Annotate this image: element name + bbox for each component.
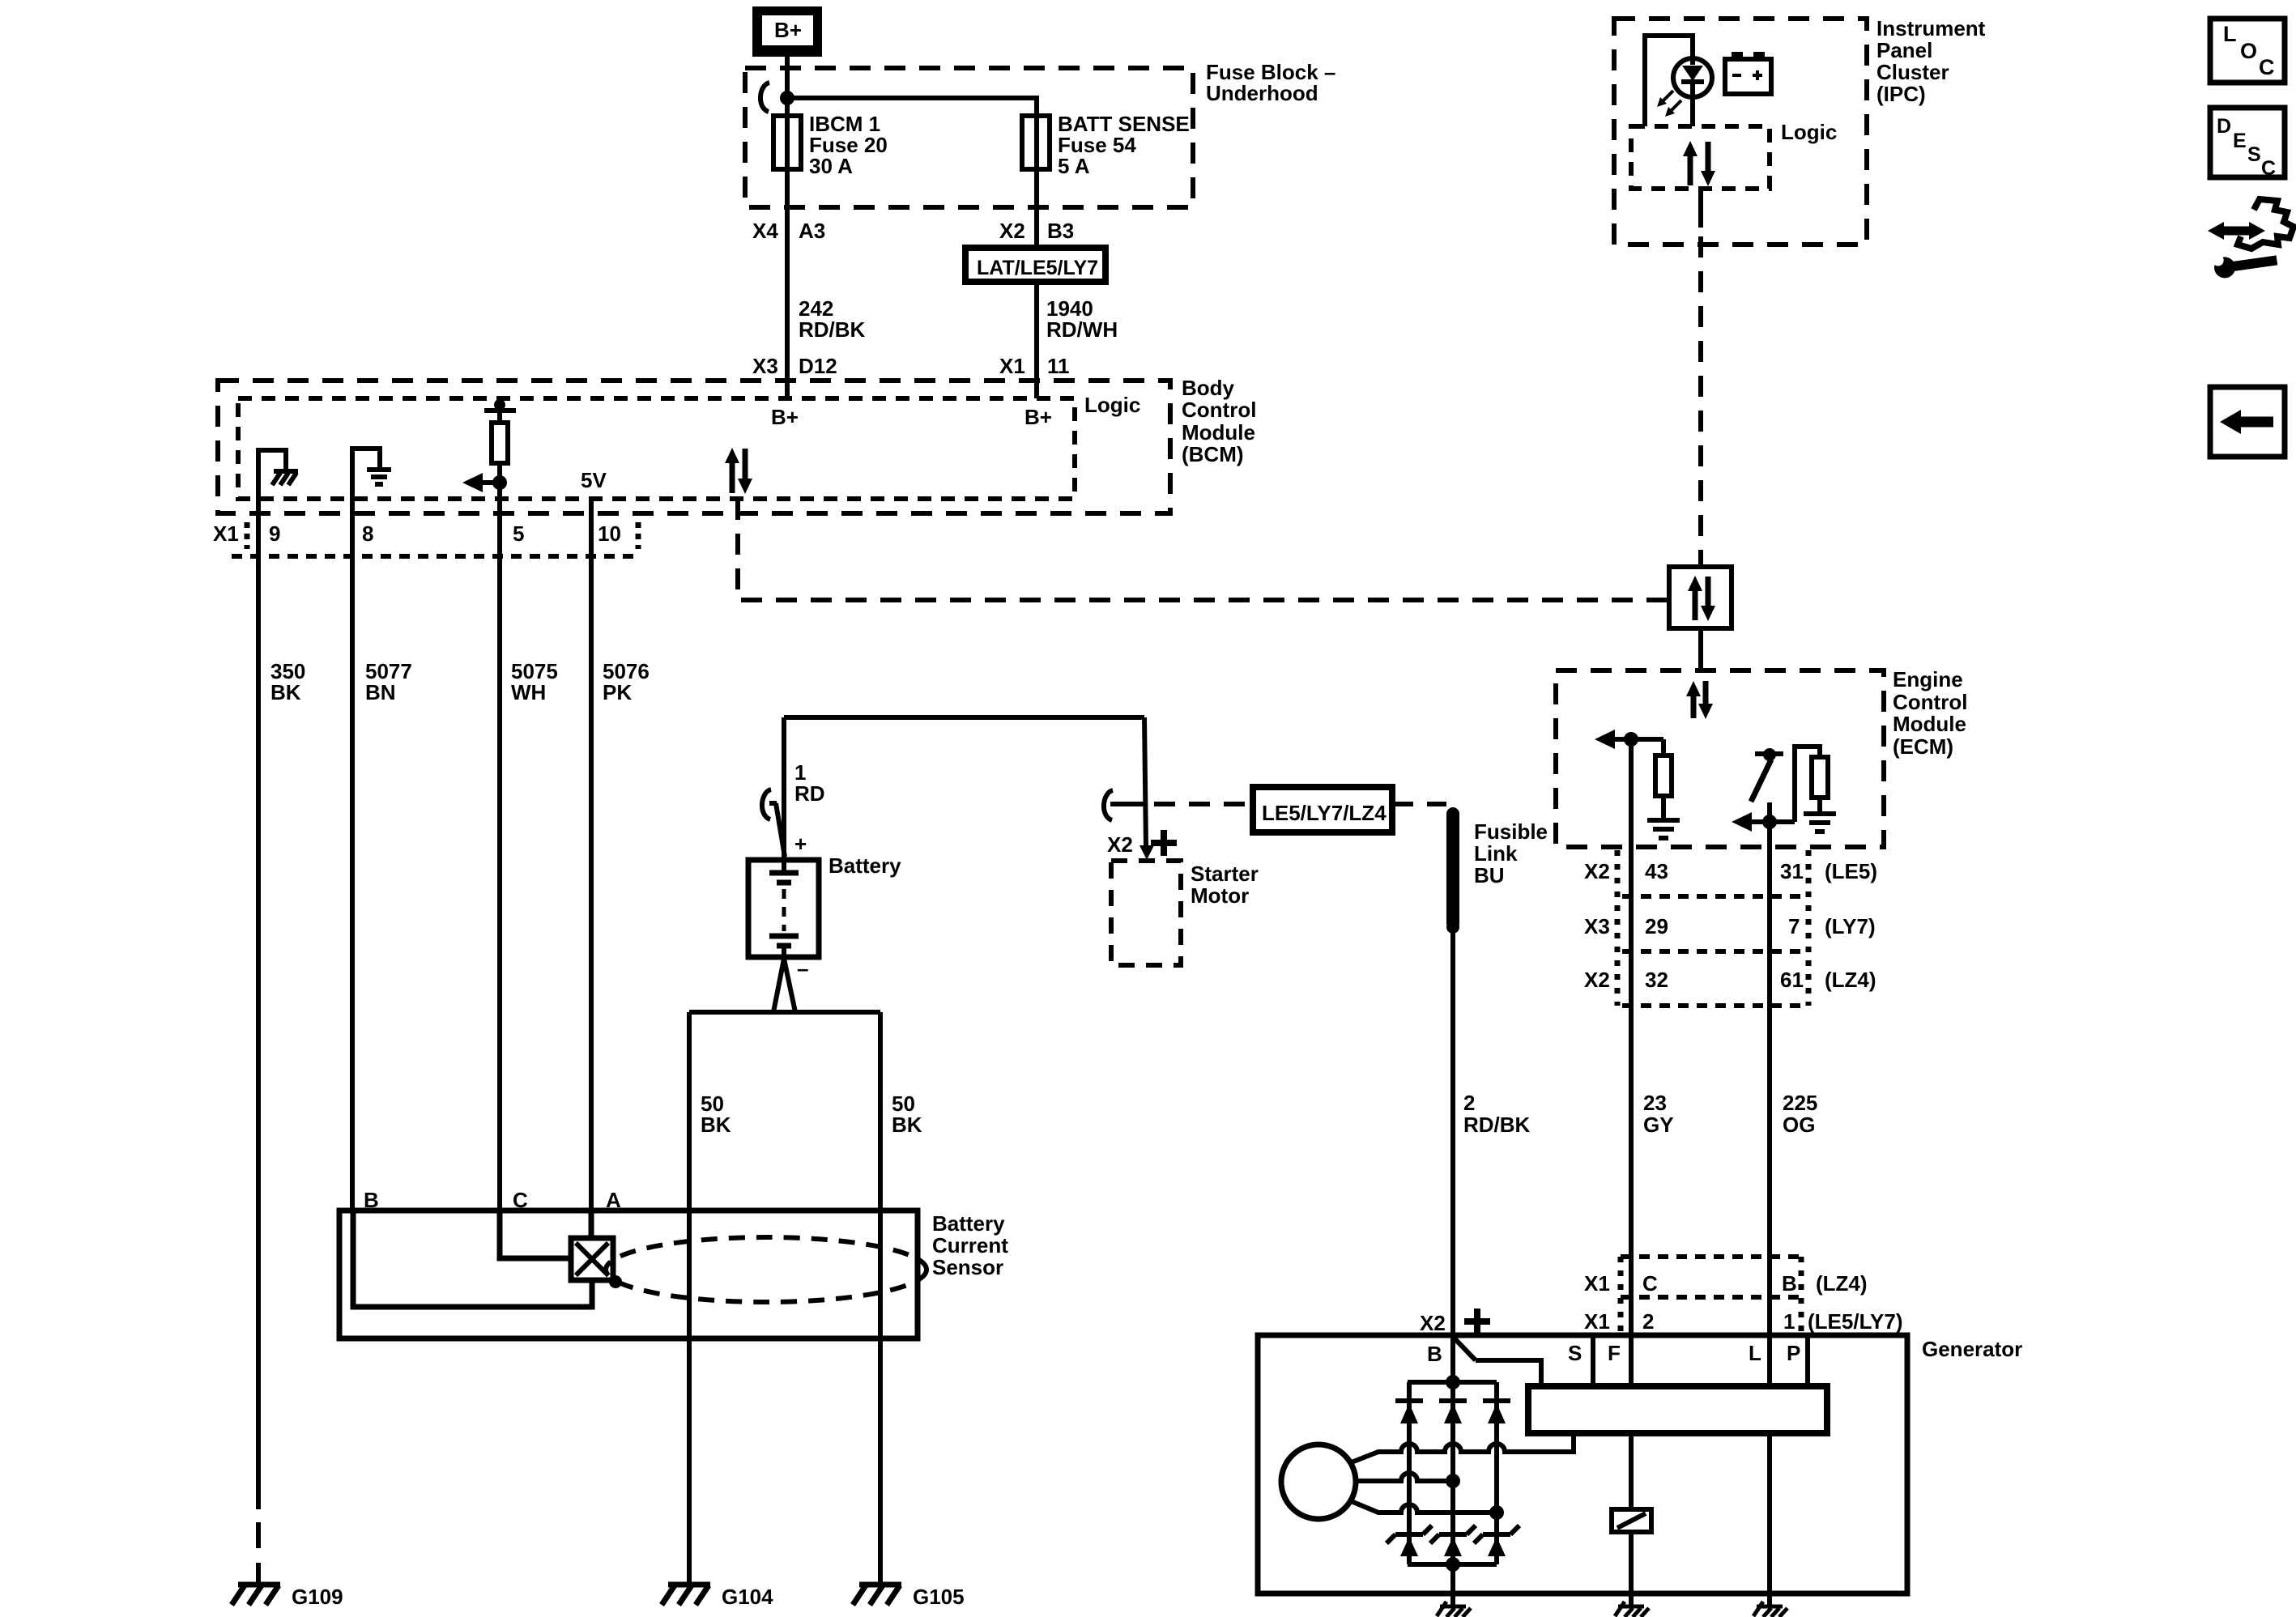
svg-text:1: 1 xyxy=(1783,1309,1795,1334)
svg-text:43: 43 xyxy=(1645,859,1668,883)
svg-text:S: S xyxy=(2247,143,2261,166)
battery current sensor box xyxy=(339,1211,918,1338)
svg-text:P: P xyxy=(1787,1341,1800,1365)
generator B internal tap xyxy=(1455,1338,1476,1360)
svg-text:Instrument: Instrument xyxy=(1876,16,1986,40)
svg-text:WH: WH xyxy=(511,680,546,704)
svg-text:B+: B+ xyxy=(774,18,802,42)
svg-text:X2: X2 xyxy=(1420,1311,1446,1335)
wire 225 OG ECM to generator L xyxy=(1767,822,1772,1386)
field diode box xyxy=(1612,1509,1651,1532)
svg-text:(BCM): (BCM) xyxy=(1182,442,1244,466)
earth ground in ECM left xyxy=(1647,820,1680,838)
wire B+ to fuse block xyxy=(785,57,790,398)
ground G109 xyxy=(232,1585,280,1605)
svg-text:–: – xyxy=(797,956,808,981)
zener diode 3 xyxy=(1474,1526,1519,1543)
svg-text:5V: 5V xyxy=(581,468,607,492)
sensor clamp dashed ellipse xyxy=(606,1237,926,1302)
node junction B+ feed xyxy=(780,91,794,105)
svg-text:61: 61 xyxy=(1780,968,1804,992)
zener diode 1 xyxy=(1387,1526,1432,1543)
wire LED to logic xyxy=(1690,82,1695,126)
svg-text:LAT/LE5/LY7: LAT/LE5/LY7 xyxy=(977,257,1098,279)
generator internal ground 3 xyxy=(1753,1602,1787,1617)
svg-text:Cluster: Cluster xyxy=(1876,60,1949,84)
svg-text:X1: X1 xyxy=(213,521,239,546)
engine option box LAT/LE5/LY7 xyxy=(965,248,1105,282)
wire 50 BK to G104 xyxy=(687,1012,692,1585)
dashed serial data wire from BCM xyxy=(738,499,1669,600)
svg-text:5 A: 5 A xyxy=(1058,154,1090,178)
svg-text:BK: BK xyxy=(270,680,301,704)
ring terminal hook at starter xyxy=(1104,790,1113,820)
earth ground symbol in BCM xyxy=(367,470,391,484)
svg-text:(LE5/LY7): (LE5/LY7) xyxy=(1808,1309,1903,1334)
svg-text:2: 2 xyxy=(1642,1309,1654,1334)
icon DESC xyxy=(2210,108,2285,180)
wire 5077 BN pin 8 xyxy=(350,556,355,1211)
battery xyxy=(748,860,819,957)
BCM logic box xyxy=(238,398,1075,499)
svg-text:10: 10 xyxy=(598,521,621,546)
svg-text:X1: X1 xyxy=(999,354,1025,378)
svg-text:Underhood: Underhood xyxy=(1206,81,1318,105)
svg-text:23: 23 xyxy=(1643,1091,1667,1115)
B+ terminal xyxy=(752,6,822,57)
svg-text:(ECM): (ECM) xyxy=(1893,734,1953,759)
svg-text:X3: X3 xyxy=(1584,914,1610,938)
icon LOC xyxy=(2210,19,2285,83)
stator phase 2 xyxy=(1356,1473,1453,1481)
svg-text:BK: BK xyxy=(701,1113,731,1137)
resistor in ECM left xyxy=(1661,739,1666,755)
fusible link BU xyxy=(1446,807,1459,934)
sensor wire A internal xyxy=(589,1211,594,1238)
svg-text:D12: D12 xyxy=(799,354,837,378)
svg-text:Sensor: Sensor xyxy=(932,1255,1003,1279)
svg-text:G109: G109 xyxy=(292,1585,343,1609)
fuse block underhood box xyxy=(745,68,1193,207)
svg-text:Link: Link xyxy=(1474,841,1518,866)
signal arrow generator L control xyxy=(1732,812,1752,832)
svg-text:2: 2 xyxy=(1463,1091,1475,1115)
svg-text:RD: RD xyxy=(794,781,825,806)
BCM connector bottom dotted edge xyxy=(232,554,638,559)
chassis ground symbol in BCM xyxy=(272,471,298,485)
svg-text:32: 32 xyxy=(1645,968,1668,992)
BCM outer box xyxy=(218,381,1170,513)
indicator LED in IPC xyxy=(1673,56,1712,97)
svg-text:(IPC): (IPC) xyxy=(1876,82,1926,106)
wire battery feed 1 RD xyxy=(784,715,1144,720)
svg-text:X2: X2 xyxy=(999,219,1025,243)
svg-text:11: 11 xyxy=(1047,354,1070,378)
svg-text:X2: X2 xyxy=(1107,832,1133,857)
fuse IBCM 1 Fuse 20 30A xyxy=(773,116,801,169)
serial data arrows in IPC xyxy=(1683,141,1715,186)
icon wiring repair xyxy=(2208,199,2294,279)
svg-text:X3: X3 xyxy=(752,354,778,378)
generator internal ground 1 xyxy=(1437,1602,1471,1617)
serial data arrows in gateway xyxy=(1688,576,1715,621)
svg-text:X4: X4 xyxy=(752,219,778,243)
svg-text:Battery: Battery xyxy=(932,1211,1005,1236)
engine option box LE5/LY7/LZ4 xyxy=(1253,787,1392,832)
svg-text:Control: Control xyxy=(1182,398,1256,422)
ground G104 xyxy=(662,1585,710,1605)
svg-text:RD/BK: RD/BK xyxy=(1463,1113,1531,1137)
resistor in BCM pin 5 xyxy=(492,423,508,463)
svg-text:X1: X1 xyxy=(1584,1271,1610,1296)
svg-text:Module: Module xyxy=(1182,420,1255,445)
node rectifier top bus xyxy=(1446,1375,1460,1389)
rectifier bottom bus xyxy=(1408,1562,1497,1567)
dashed wire LE5 box to fusible link xyxy=(1392,802,1446,806)
node junction sense/resistor xyxy=(1624,732,1638,747)
starter motor box xyxy=(1111,861,1181,965)
earth ground in ECM right xyxy=(1804,814,1836,832)
signal arrow battery voltage sense xyxy=(1595,730,1615,749)
sensor element xyxy=(571,1238,613,1280)
svg-text:G105: G105 xyxy=(913,1585,965,1609)
zener diode 2 xyxy=(1430,1526,1476,1543)
svg-text:31: 31 xyxy=(1780,859,1804,883)
ECM outer box xyxy=(1556,670,1884,847)
pull-up terminal bar pin 5 xyxy=(494,399,505,411)
svg-text:Logic: Logic xyxy=(1084,393,1140,417)
node junction pin 5 xyxy=(492,475,507,490)
svg-text:B: B xyxy=(1782,1271,1797,1296)
wire LED loop in IPC xyxy=(1645,36,1693,126)
svg-text:BU: BU xyxy=(1474,863,1505,887)
serial data arrows in ECM xyxy=(1686,681,1713,719)
svg-text:(LY7): (LY7) xyxy=(1825,914,1876,938)
wire LAT box to BCM pin 11 xyxy=(1034,282,1039,398)
IPC logic box xyxy=(1631,126,1770,189)
svg-text:D: D xyxy=(2217,115,2231,138)
svg-text:Battery: Battery xyxy=(829,853,901,878)
svg-text:BN: BN xyxy=(365,680,396,704)
svg-text:F: F xyxy=(1608,1341,1621,1365)
rectifier top bus xyxy=(1408,1380,1497,1385)
svg-text:A3: A3 xyxy=(799,219,825,243)
svg-text:B+: B+ xyxy=(1024,405,1052,429)
svg-text:C: C xyxy=(1642,1271,1658,1296)
wire pin 5 down xyxy=(497,483,502,1211)
serial data gateway box xyxy=(1669,567,1732,628)
signal arrow pin 5 xyxy=(462,473,483,492)
wire B to rectifier xyxy=(1450,1335,1455,1381)
svg-text:Fusible: Fusible xyxy=(1474,819,1548,844)
svg-text:G104: G104 xyxy=(722,1585,773,1609)
svg-text:L: L xyxy=(2223,22,2237,46)
dashed serial wire IPC to gateway xyxy=(1698,236,1703,567)
svg-text:B+: B+ xyxy=(771,405,799,429)
wire gateway to ECM xyxy=(1698,628,1703,670)
svg-text:Current: Current xyxy=(932,1233,1008,1257)
svg-text:B: B xyxy=(1427,1342,1442,1366)
svg-text:9: 9 xyxy=(269,521,280,546)
LED light arrows xyxy=(1657,91,1681,117)
wire field to ground xyxy=(1629,1532,1634,1606)
terminal separator P right xyxy=(1805,1335,1810,1386)
svg-text:Body: Body xyxy=(1182,376,1235,400)
svg-text:Motor: Motor xyxy=(1191,883,1249,908)
icon back arrow xyxy=(2210,387,2285,457)
diode 3 xyxy=(1483,1398,1510,1403)
sensor wire C internal xyxy=(500,1211,571,1258)
svg-text:X2: X2 xyxy=(1584,968,1610,992)
svg-text:+: + xyxy=(794,832,807,856)
svg-text:OG: OG xyxy=(1783,1113,1815,1137)
svg-text:Control: Control xyxy=(1893,690,1967,714)
generator box xyxy=(1258,1335,1907,1594)
stator phase 3 xyxy=(1349,1500,1497,1513)
svg-text:Module: Module xyxy=(1893,712,1966,736)
svg-text:29: 29 xyxy=(1645,914,1668,938)
svg-text:S: S xyxy=(1568,1341,1582,1365)
battery icon in IPC xyxy=(1725,52,1771,94)
generator internal ground 2 xyxy=(1615,1602,1649,1617)
starter positive label xyxy=(1151,830,1177,856)
wire 23 GY ECM to generator F xyxy=(1629,739,1634,1386)
battery negative cable split xyxy=(773,959,784,1012)
svg-text:BK: BK xyxy=(892,1113,922,1137)
wire 5076 PK pin 10 xyxy=(589,499,594,1211)
svg-text:X1: X1 xyxy=(1584,1309,1610,1334)
svg-text:O: O xyxy=(2240,39,2257,63)
svg-text:B3: B3 xyxy=(1047,219,1074,243)
rectifier column 2 xyxy=(1450,1382,1455,1564)
switch in ECM right xyxy=(1751,748,1783,822)
svg-text:(LZ4): (LZ4) xyxy=(1816,1271,1868,1296)
svg-text:(LZ4): (LZ4) xyxy=(1825,968,1876,992)
svg-text:C: C xyxy=(2259,55,2275,79)
svg-text:Panel: Panel xyxy=(1876,38,1932,62)
IPC outer box xyxy=(1614,19,1867,245)
svg-text:LE5/LY7/LZ4: LE5/LY7/LZ4 xyxy=(1262,801,1387,825)
stator phase 1 to regulator xyxy=(1349,1433,1574,1463)
svg-text:Logic: Logic xyxy=(1781,120,1837,144)
wire F below regulator xyxy=(1629,1433,1634,1509)
terminal separator S/F xyxy=(1591,1335,1595,1386)
ring terminal hook at battery xyxy=(762,789,771,819)
svg-text:E: E xyxy=(2233,130,2247,152)
svg-text:(LE5): (LE5) xyxy=(1825,859,1877,883)
svg-text:Generator: Generator xyxy=(1922,1337,2022,1361)
BCM ground circuit pin 9 xyxy=(258,450,286,556)
wire IPC logic down xyxy=(1698,189,1703,228)
svg-text:5: 5 xyxy=(513,521,524,546)
svg-text:30 A: 30 A xyxy=(809,154,853,178)
BCM ground circuit pin 8 xyxy=(352,449,380,556)
wire 2 RD/BK fusible link to generator B xyxy=(1450,931,1455,1381)
ECM connector rows xyxy=(1615,850,1621,1006)
svg-text:GY: GY xyxy=(1643,1113,1674,1137)
generator B positive label xyxy=(1464,1308,1490,1334)
rotor xyxy=(1281,1445,1356,1519)
rectifier column 1 xyxy=(1407,1382,1412,1564)
node junction L drive xyxy=(1762,815,1777,829)
resistor loop in ECM right xyxy=(1795,747,1820,822)
svg-text:X2: X2 xyxy=(1584,859,1610,883)
voltage regulator xyxy=(1528,1386,1827,1433)
svg-text:C: C xyxy=(2261,157,2276,180)
ground G105 xyxy=(853,1585,901,1605)
svg-text:L: L xyxy=(1749,1341,1761,1365)
generator connector row X1 C/B (LZ4) xyxy=(1621,1254,1802,1259)
rectifier column 3 xyxy=(1494,1382,1499,1564)
starter cable down xyxy=(1144,717,1146,847)
dashed wire starter to LE5 box xyxy=(1154,802,1253,806)
svg-text:RD/BK: RD/BK xyxy=(799,317,866,342)
svg-text:RD/WH: RD/WH xyxy=(1046,317,1118,342)
serial data arrows in BCM xyxy=(725,448,752,494)
svg-text:Starter: Starter xyxy=(1191,862,1259,886)
wire fuse54 to LAT box xyxy=(1034,169,1039,248)
node sensor clamp dot xyxy=(609,1275,622,1288)
svg-text:PK: PK xyxy=(603,680,632,704)
wire rectifier to ground xyxy=(1450,1564,1455,1606)
diode 1 xyxy=(1395,1398,1423,1403)
svg-text:Engine: Engine xyxy=(1893,667,1963,691)
svg-text:225: 225 xyxy=(1783,1091,1817,1115)
wire 50 BK to G105 xyxy=(878,1012,883,1585)
svg-text:8: 8 xyxy=(362,521,373,546)
wire junction to fuse 54 xyxy=(787,98,1037,169)
wire 350 BK pin 9 xyxy=(256,556,261,1509)
svg-text:7: 7 xyxy=(1788,914,1800,938)
diode 2 xyxy=(1439,1398,1467,1403)
sensor wire B internal xyxy=(353,1211,592,1307)
ground bus wire xyxy=(689,1010,880,1015)
wire L below regulator xyxy=(1767,1433,1772,1606)
fuse BATT SENSE Fuse 54 5A xyxy=(1022,116,1050,169)
current loop hook at fuse block feed xyxy=(760,83,769,112)
wire 350 BK dashed tail xyxy=(256,1522,261,1585)
